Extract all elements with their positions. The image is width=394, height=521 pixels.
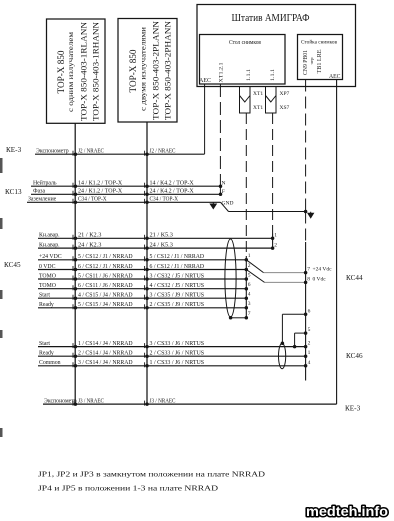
svg-text:КЕ-3: КЕ-3 — [345, 405, 361, 413]
svg-text:3 / CS35 / J9 / NRTUS: 3 / CS35 / J9 / NRTUS — [150, 293, 205, 299]
svg-text:2: 2 — [308, 341, 311, 347]
svg-text:4: 4 — [308, 360, 311, 366]
svg-text:6 / CS12 / J1 / NRRAD: 6 / CS12 / J1 / NRRAD — [78, 264, 133, 270]
svg-text:с одним излучателем: с одним излучателем — [66, 32, 75, 112]
svg-text:21 / К5.3: 21 / К5.3 — [150, 233, 173, 239]
svg-text:Стойка снимков: Стойка снимков — [301, 39, 337, 46]
svg-text:7: 7 — [248, 311, 251, 317]
svg-text:5 / CS15 / J4 / NRRAD: 5 / CS15 / J4 / NRRAD — [78, 302, 133, 308]
svg-text:1: 1 — [248, 253, 251, 259]
svg-text:ТОР-Х 850: ТОР-Х 850 — [129, 49, 139, 92]
svg-text:Start: Start — [39, 341, 50, 347]
svg-text:24 / К4.2 / ТОР-Х: 24 / К4.2 / ТОР-Х — [150, 189, 195, 195]
svg-text:Стол снимков: Стол снимков — [229, 40, 261, 46]
svg-text:24 / К1.2 / ТОР-Х: 24 / К1.2 / ТОР-Х — [78, 189, 123, 195]
svg-text:КС45: КС45 — [4, 261, 21, 269]
svg-text:21 / К2.3: 21 / К2.3 — [78, 233, 101, 239]
svg-text:чер: чер — [309, 58, 314, 65]
svg-text:GND: GND — [222, 201, 234, 207]
svg-text:2 / CS14 / J4 / NRRAD: 2 / CS14 / J4 / NRRAD — [78, 351, 133, 357]
svg-text:5 / CS12 / J1 / NRRAD: 5 / CS12 / J1 / NRRAD — [78, 254, 133, 260]
svg-text:6: 6 — [248, 282, 251, 288]
svg-text:с двумя излучателями: с двумя излучателями — [139, 27, 148, 111]
svg-text:J2 / NRAEC: J2 / NRAEC — [78, 149, 104, 155]
svg-text:3 / CS14 / J4 / NRRAD: 3 / CS14 / J4 / NRRAD — [78, 360, 133, 366]
svg-text:6: 6 — [308, 308, 311, 314]
svg-text:JP4 и JP5 в положении 1-3 на: JP4 и JP5 в положении 1-3 на плате NRRAD — [38, 484, 218, 493]
svg-text:5 / CS12 / J1 / NRRAD: 5 / CS12 / J1 / NRRAD — [150, 254, 205, 260]
svg-text:ТОР-Х 850-403-2PLANN: ТОР-Х 850-403-2PLANN — [151, 21, 161, 120]
svg-text:5 / CS11 / J6 / NRRAD: 5 / CS11 / J6 / NRRAD — [78, 273, 133, 279]
svg-text:ТОР-Х 850-403-2PHANN: ТОР-Х 850-403-2PHANN — [163, 21, 173, 120]
svg-text:5: 5 — [308, 327, 311, 333]
svg-text:ХТ1: ХТ1 — [253, 91, 263, 97]
svg-text:Start: Start — [39, 293, 50, 299]
svg-text:J3 / NRAEC: J3 / NRAEC — [150, 399, 176, 405]
svg-text:F: F — [222, 189, 225, 195]
svg-text:TOMO: TOMO — [39, 283, 56, 289]
svg-text:Нейтраль: Нейтраль — [33, 180, 57, 187]
svg-text:1.1.1: 1.1.1 — [270, 69, 276, 81]
svg-text:2: 2 — [248, 263, 251, 269]
svg-text:J3 / NRAEC: J3 / NRAEC — [78, 399, 104, 405]
svg-text:3 / CS33 / J6 / NRTUS: 3 / CS33 / J6 / NRTUS — [150, 341, 205, 347]
svg-text:Экспонометр: Экспонометр — [44, 399, 77, 405]
svg-text:N: N — [222, 180, 226, 186]
svg-text:КС46: КС46 — [346, 352, 363, 360]
svg-text:ХТ1: ХТ1 — [253, 105, 263, 111]
svg-text:4 / CS32 / J5 / NRTUS: 4 / CS32 / J5 / NRTUS — [150, 283, 205, 289]
svg-text:4 / CS15 / J4 / NRRAD: 4 / CS15 / J4 / NRRAD — [78, 293, 133, 299]
svg-text:6 / CS12 / J1 / NRRAD: 6 / CS12 / J1 / NRRAD — [150, 264, 205, 270]
svg-text:TOMO: TOMO — [39, 273, 56, 279]
svg-text:medteh.info: medteh.info — [306, 504, 388, 519]
svg-text:ХТ1.2.1: ХТ1.2.1 — [219, 62, 225, 82]
svg-text:24 / К2.3: 24 / К2.3 — [78, 243, 101, 249]
svg-text:КС13: КС13 — [5, 188, 22, 196]
svg-text:Заземление: Заземление — [28, 197, 57, 203]
svg-text:3 / CS32 / J5 / NRTUS: 3 / CS32 / J5 / NRTUS — [150, 273, 205, 279]
svg-text:ХS7: ХS7 — [280, 105, 290, 111]
svg-text:Common: Common — [39, 360, 61, 366]
svg-text:КЕ-3: КЕ-3 — [6, 146, 22, 154]
svg-text:+24 VDC: +24 VDC — [39, 254, 62, 260]
svg-text:2 / CS35 / J9 / NRTUS: 2 / CS35 / J9 / NRTUS — [150, 302, 205, 308]
svg-text:Ready: Ready — [39, 302, 54, 308]
svg-text:24 / К5.3: 24 / К5.3 — [150, 243, 173, 249]
svg-text:+24 Vdc: +24 Vdc — [313, 267, 333, 273]
svg-text:АЕС: АЕС — [329, 74, 341, 80]
svg-text:С34 / ТОР-Х: С34 / ТОР-Х — [78, 197, 107, 203]
svg-text:J2 / NRAEC: J2 / NRAEC — [150, 149, 176, 155]
svg-text:4: 4 — [248, 292, 251, 298]
svg-text:8: 8 — [307, 276, 310, 282]
svg-text:1.1.1: 1.1.1 — [246, 69, 252, 81]
svg-text:Кн.авар.: Кн.авар. — [39, 243, 60, 249]
svg-text:Штатив АМИГРАФ: Штатив АМИГРАФ — [232, 13, 310, 24]
svg-text:ТОР-Х 850-403-1RHANN: ТОР-Х 850-403-1RHANN — [91, 22, 101, 121]
svg-text:1: 1 — [274, 233, 277, 239]
svg-text:2: 2 — [274, 242, 277, 248]
svg-text:2 / CS33 / J6 / NRTUS: 2 / CS33 / J6 / NRTUS — [150, 351, 205, 357]
svg-text:Ready: Ready — [39, 351, 54, 357]
svg-text:ТОР-Х 850-403-1RLANN: ТОР-Х 850-403-1RLANN — [79, 22, 89, 121]
svg-text:JP1, JP2 и JP3 в замкнутом пол: JP1, JP2 и JP3 в замкнутом положении на … — [38, 470, 265, 479]
svg-text:ТВ1 LRE: ТВ1 LRE — [317, 49, 323, 73]
svg-text:0 Vdc: 0 Vdc — [313, 276, 327, 282]
svg-text:1: 1 — [308, 350, 311, 356]
svg-text:14 / К4.2 / ТОР-Х: 14 / К4.2 / ТОР-Х — [150, 181, 195, 187]
svg-text:6 / CS11 / J6 / NRRAD: 6 / CS11 / J6 / NRRAD — [78, 283, 133, 289]
svg-text:Экспонометр: Экспонометр — [36, 149, 69, 155]
svg-text:Фаза: Фаза — [33, 189, 45, 195]
svg-text:0 VDC: 0 VDC — [39, 264, 56, 270]
svg-text:1 / CS33 / J6 / NRTUS: 1 / CS33 / J6 / NRTUS — [150, 360, 205, 366]
svg-text:Кн.авар.: Кн.авар. — [39, 233, 60, 239]
svg-text:АЕС: АЕС — [199, 78, 211, 84]
svg-text:С34 / ТОР-Х: С34 / ТОР-Х — [150, 197, 179, 203]
svg-text:7: 7 — [307, 267, 310, 273]
svg-text:14 / К1.2 / ТОР-Х: 14 / К1.2 / ТОР-Х — [78, 181, 123, 187]
svg-text:5: 5 — [248, 272, 251, 278]
svg-text:3: 3 — [248, 301, 251, 307]
svg-text:КС44: КС44 — [346, 274, 363, 282]
svg-text:1 / CS14 / J4 / NRRAD: 1 / CS14 / J4 / NRRAD — [78, 341, 133, 347]
svg-text:ХР7: ХР7 — [280, 91, 290, 97]
